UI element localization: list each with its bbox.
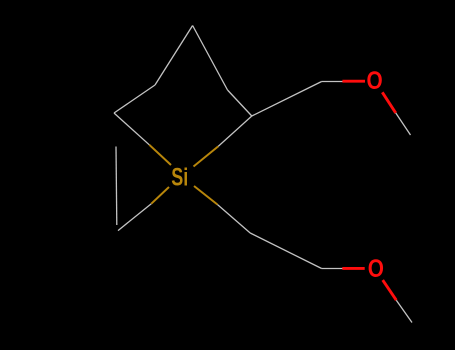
wire: ring bond D to C_UR [228, 90, 252, 116]
bond upper O-methyl red half [382, 92, 395, 113]
silicon Si bond upper-right gold half [194, 146, 219, 166]
wire: chain C_UR to C2 [252, 82, 322, 117]
wire: chain C2 to upper O gray half [322, 81, 344, 83]
wire: Si upper-left bond gray half [114, 113, 149, 145]
silicon Si bond upper-left gold half [149, 145, 171, 165]
bond lower O-methyl red half [383, 280, 397, 300]
bond to lower O red half [342, 267, 364, 270]
bond to upper O red half [342, 80, 365, 83]
wire: left vertical bond [115, 147, 118, 226]
wire: lower methyl tail gray half [396, 300, 412, 322]
wire: Si upper-right bond gray half [218, 116, 252, 146]
wire: chain C2' to lower O gray half [322, 268, 344, 270]
wire: chain C_LR to C2' [250, 233, 321, 269]
wire: ring bond apex to D [193, 26, 228, 91]
wire: upper methyl tail gray half [396, 113, 411, 135]
svg-text:O: O [368, 256, 384, 283]
wire: Si lower-right bond gray half [217, 205, 250, 234]
wire: ring bond C_UL to B [114, 85, 155, 113]
wire: Si lower-left bond gray half [118, 204, 151, 231]
svg-text:O: O [367, 68, 383, 95]
svg-text:Si: Si [171, 164, 188, 192]
silicon Si bond lower-right gold half [194, 186, 217, 205]
wire: ring bond B to apex [155, 26, 193, 86]
silicon Si bond lower-left gold half [151, 187, 169, 204]
